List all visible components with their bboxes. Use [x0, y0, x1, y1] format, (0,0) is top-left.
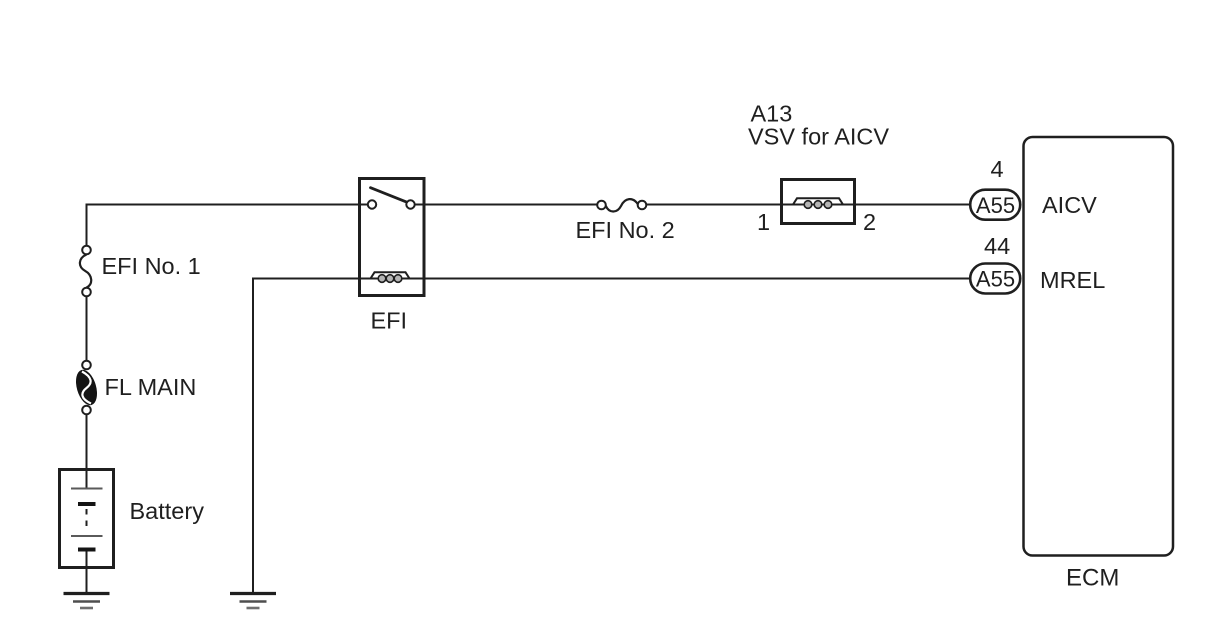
- wire EFI No.1 to FL MAIN: [86, 297, 88, 361]
- wire relay coil to A55 pin 44: [426, 278, 970, 280]
- ECM box: [1024, 137, 1174, 556]
- svg-text:44: 44: [984, 233, 1010, 259]
- connector A55 pin 4: [970, 190, 1020, 220]
- connector A55 pin 44: [970, 264, 1020, 294]
- ground (battery): [64, 594, 110, 609]
- svg-text:VSV for AICV: VSV for AICV: [748, 124, 889, 150]
- svg-text:EFI No. 2: EFI No. 2: [576, 217, 675, 243]
- svg-text:A55: A55: [976, 267, 1015, 292]
- fuse EFI No. 2: [597, 199, 646, 211]
- battery: [60, 469, 114, 568]
- svg-text:2: 2: [863, 209, 876, 235]
- relay EFI: [358, 179, 426, 296]
- wire battery to ground: [86, 568, 88, 593]
- svg-text:EFI No. 1: EFI No. 1: [102, 253, 201, 279]
- wire FL MAIN to battery: [86, 415, 88, 470]
- wire fuse to VSV: [647, 204, 782, 206]
- wire relay to EFI No.2 fuse: [426, 204, 598, 206]
- svg-text:A55: A55: [976, 193, 1015, 218]
- svg-text:EFI: EFI: [371, 308, 408, 334]
- svg-text:AICV: AICV: [1042, 192, 1097, 218]
- svg-text:Battery: Battery: [130, 498, 205, 524]
- svg-text:4: 4: [991, 156, 1004, 182]
- wire VSV to A55 pin 4: [855, 204, 970, 206]
- fuse EFI No. 1: [80, 246, 91, 297]
- svg-text:1: 1: [757, 209, 770, 235]
- VSV A13 for AICV: [781, 180, 855, 224]
- svg-text:MREL: MREL: [1040, 267, 1105, 293]
- wire B+ top horizontal to relay: [87, 205, 359, 246]
- svg-text:FL MAIN: FL MAIN: [105, 374, 197, 400]
- fusible link FL MAIN: [72, 361, 100, 415]
- svg-text:ECM: ECM: [1066, 565, 1119, 592]
- ground (relay coil): [230, 594, 276, 609]
- wire relay coil to ground (MREL branch): [253, 279, 358, 593]
